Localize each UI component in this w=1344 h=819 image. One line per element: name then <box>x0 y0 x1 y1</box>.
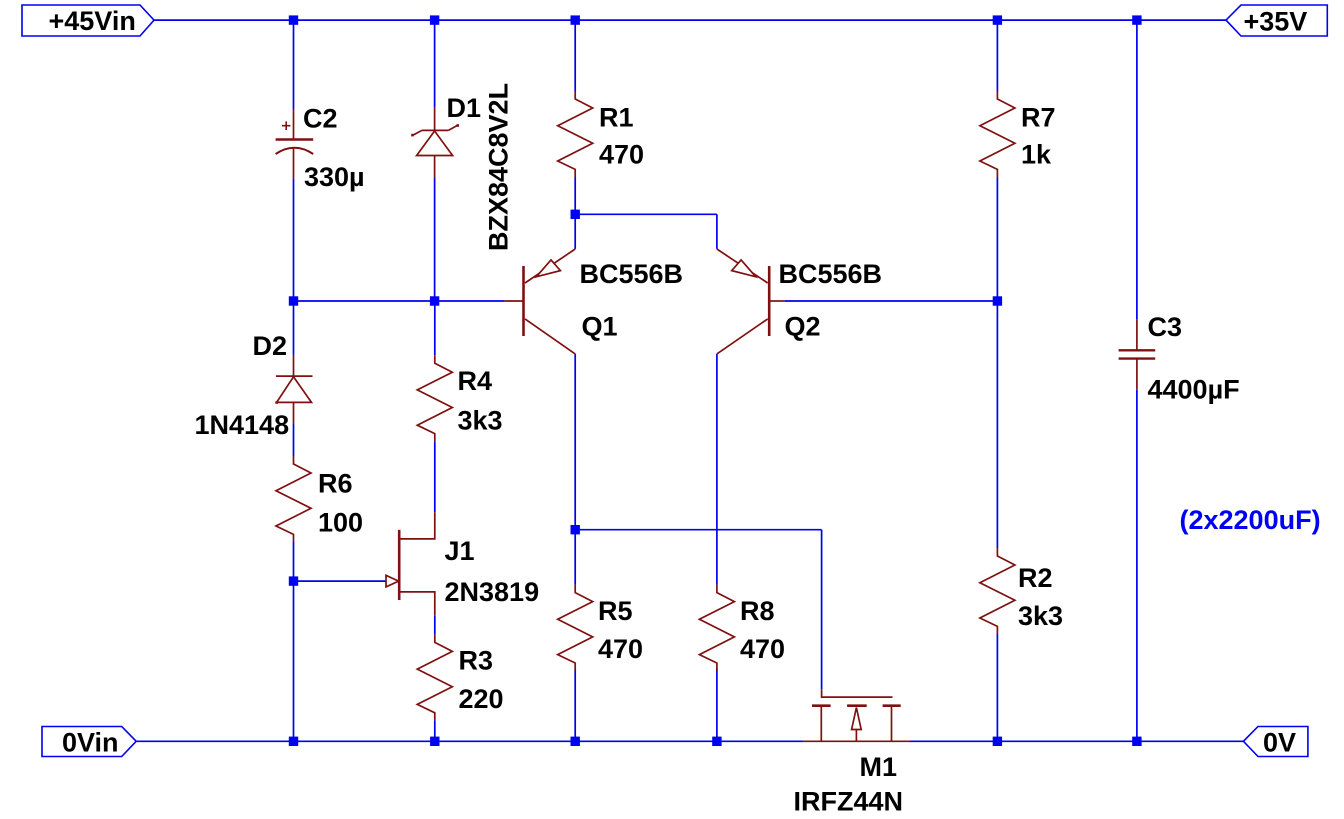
node top rail / C2 <box>289 15 298 24</box>
capacitor C2 330u polarized <box>276 103 365 192</box>
svg-text:+45Vin: +45Vin <box>49 6 136 36</box>
svg-text:1k: 1k <box>1021 140 1052 170</box>
node bottom rail / R8 <box>712 737 721 746</box>
wire top rail to C2 <box>293 20 295 109</box>
node top rail / R1 <box>571 15 580 24</box>
node mid rail / C2-D2 <box>289 296 298 305</box>
wire R1 to Q1 emitter <box>574 177 576 249</box>
svg-text:470: 470 <box>599 140 644 170</box>
wire R6 node to J1 gate <box>294 580 387 582</box>
wire D2 to R6 <box>293 424 295 456</box>
node bottom rail / C3 <box>1132 737 1141 746</box>
node mid rail / D1-R4 <box>430 296 439 305</box>
svg-text:3k3: 3k3 <box>1018 601 1063 631</box>
svg-text:R8: R8 <box>740 596 775 626</box>
svg-text:330µ: 330µ <box>304 162 365 192</box>
wire top rail +45Vin/+35V <box>154 19 1226 21</box>
svg-text:3k3: 3k3 <box>458 406 503 436</box>
resistor R3 <box>417 634 503 720</box>
wire R7 to R2 <box>996 177 998 548</box>
svg-text:0Vin: 0Vin <box>62 728 119 758</box>
node Q2 base / R7-R2 <box>993 296 1002 305</box>
svg-text:+35V: +35V <box>1244 6 1308 36</box>
wire C3 to bottom rail <box>1136 389 1138 741</box>
resistor R4 <box>417 355 502 441</box>
svg-text:R4: R4 <box>458 366 493 396</box>
svg-text:100: 100 <box>318 508 363 538</box>
resistor R5 <box>558 585 643 671</box>
transistor Q2 BC556B (PNP) <box>717 249 882 354</box>
svg-text:1N4148: 1N4148 <box>195 410 290 440</box>
wire J1 source to R3 <box>434 615 436 634</box>
svg-text:R6: R6 <box>318 469 353 499</box>
svg-text:R2: R2 <box>1018 563 1053 593</box>
svg-text:R7: R7 <box>1021 103 1056 133</box>
svg-text:C3: C3 <box>1148 312 1183 342</box>
node bottom rail / R6 column <box>289 737 298 746</box>
resistor R7 <box>980 91 1056 177</box>
transistor J1 2N3819 (JFET) <box>386 512 539 615</box>
svg-text:R3: R3 <box>459 646 494 676</box>
resistor R6 <box>276 456 363 542</box>
svg-text:J1: J1 <box>445 536 475 566</box>
svg-text:470: 470 <box>598 634 643 664</box>
svg-text:Q2: Q2 <box>785 312 821 342</box>
node 0V (port) <box>1243 727 1308 758</box>
wire top rail to D1 <box>434 20 436 107</box>
svg-text:4400µF: 4400µF <box>1148 375 1240 405</box>
transistor Q1 BC556B (PNP) <box>504 249 683 354</box>
svg-text:Q1: Q1 <box>582 312 618 342</box>
diode D1 zener BZX84C8V2L <box>411 83 513 251</box>
wire Q1 emitter to Q2 emitter <box>575 213 717 215</box>
wire R6 to bottom rail <box>293 542 295 741</box>
svg-text:C2: C2 <box>303 103 338 133</box>
wire top rail to R7 <box>996 20 998 91</box>
node +45Vin (port) <box>22 5 154 36</box>
wire R2 to bottom rail <box>996 634 998 741</box>
wire bottom rail right (0V) <box>910 740 1243 742</box>
svg-text:D2: D2 <box>253 331 288 361</box>
wire gate run vertical to M1 gate <box>821 530 823 690</box>
wire R5 to bottom rail <box>574 669 576 742</box>
diode D2 1N4148 <box>195 331 313 440</box>
svg-text:(2x2200uF): (2x2200uF) <box>1180 505 1321 535</box>
resistor R2 <box>980 548 1063 634</box>
svg-text:M1: M1 <box>860 752 898 782</box>
resistor R1 <box>558 91 644 177</box>
wire Q2 collector to R8 <box>716 354 718 585</box>
wire top rail to R1 <box>574 20 576 91</box>
node bottom rail / R5 <box>571 737 580 746</box>
svg-text:220: 220 <box>459 684 504 714</box>
node top rail / R7 <box>993 15 1002 24</box>
wire mid node to R4 <box>434 301 436 355</box>
node bottom rail / R3 <box>430 737 439 746</box>
wire mid node to D2 <box>293 301 295 355</box>
svg-text:0V: 0V <box>1263 728 1296 758</box>
wire Q2 base to R7/R2 node <box>785 300 998 302</box>
svg-text:IRFZ44N: IRFZ44N <box>794 787 904 817</box>
wire bottom rail left (0Vin) <box>136 740 804 742</box>
wire mid node to Q1 base <box>294 300 505 302</box>
node +35V (port) <box>1226 5 1327 36</box>
resistor R8 <box>699 585 785 671</box>
wire Q1 collector to R5 <box>574 354 576 585</box>
svg-text:BZX84C8V2L: BZX84C8V2L <box>484 83 514 251</box>
wire top rail to C3 <box>1136 20 1138 320</box>
transistor M1 IRFZ44N (NMOS) <box>794 689 911 816</box>
wire down to Q2 emitter <box>716 214 718 249</box>
svg-text:BC556B: BC556B <box>779 259 883 289</box>
svg-text:R5: R5 <box>598 596 633 626</box>
capacitor C3 4400uF <box>1119 312 1240 405</box>
svg-text:D1: D1 <box>447 93 482 123</box>
wire D1 to mid node <box>434 177 436 301</box>
wire R4 to J1 drain <box>434 441 436 512</box>
node Q1 collector / M1 gate <box>571 525 580 534</box>
wire C2 to mid node <box>293 178 295 301</box>
wire R8 to bottom rail <box>716 669 718 742</box>
svg-text:BC556B: BC556B <box>580 259 684 289</box>
node Q1 emitter / R1 <box>571 210 580 219</box>
node 0Vin (port) <box>42 727 136 758</box>
svg-text:470: 470 <box>740 634 785 664</box>
wire gate run horizontal <box>575 529 821 531</box>
node bottom rail / R2 <box>993 737 1002 746</box>
node top rail / C3 <box>1132 15 1141 24</box>
node top rail / D1 <box>430 15 439 24</box>
svg-text:2N3819: 2N3819 <box>445 577 540 607</box>
wire R3 to bottom rail <box>434 720 436 741</box>
svg-text:R1: R1 <box>599 103 634 133</box>
node R6 / J1 gate <box>289 576 298 585</box>
